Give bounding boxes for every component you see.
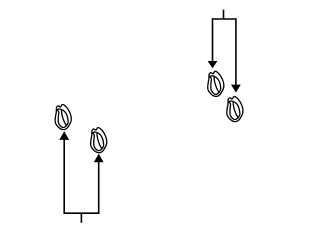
arrowhead: group A left (up)	[59, 131, 69, 140]
bud A1 (bottom-left group, upper-left bud)	[55, 104, 71, 129]
wire: group A bottom horizontal	[64, 212, 99, 214]
wire: group A right vertical	[98, 161, 100, 214]
wire: group B left vertical	[212, 18, 214, 62]
wire: group A bottom stub	[80, 213, 82, 223]
bud A2 (bottom-left group, lower-right bud)	[91, 128, 107, 153]
wire: group B right vertical	[235, 18, 237, 85]
bud B2 (top-right group, lower-right bud)	[227, 96, 243, 121]
arrowhead: group B left (down)	[208, 61, 218, 68]
bud B1 (top-right group, upper-left bud)	[208, 71, 224, 96]
arrowhead: group A right (up)	[94, 154, 104, 163]
wire: group B top horizontal	[213, 18, 236, 20]
arrowhead: group B right (down)	[231, 85, 241, 93]
wire: group B top stub	[223, 10, 225, 19]
wire: group A left vertical	[63, 139, 65, 214]
